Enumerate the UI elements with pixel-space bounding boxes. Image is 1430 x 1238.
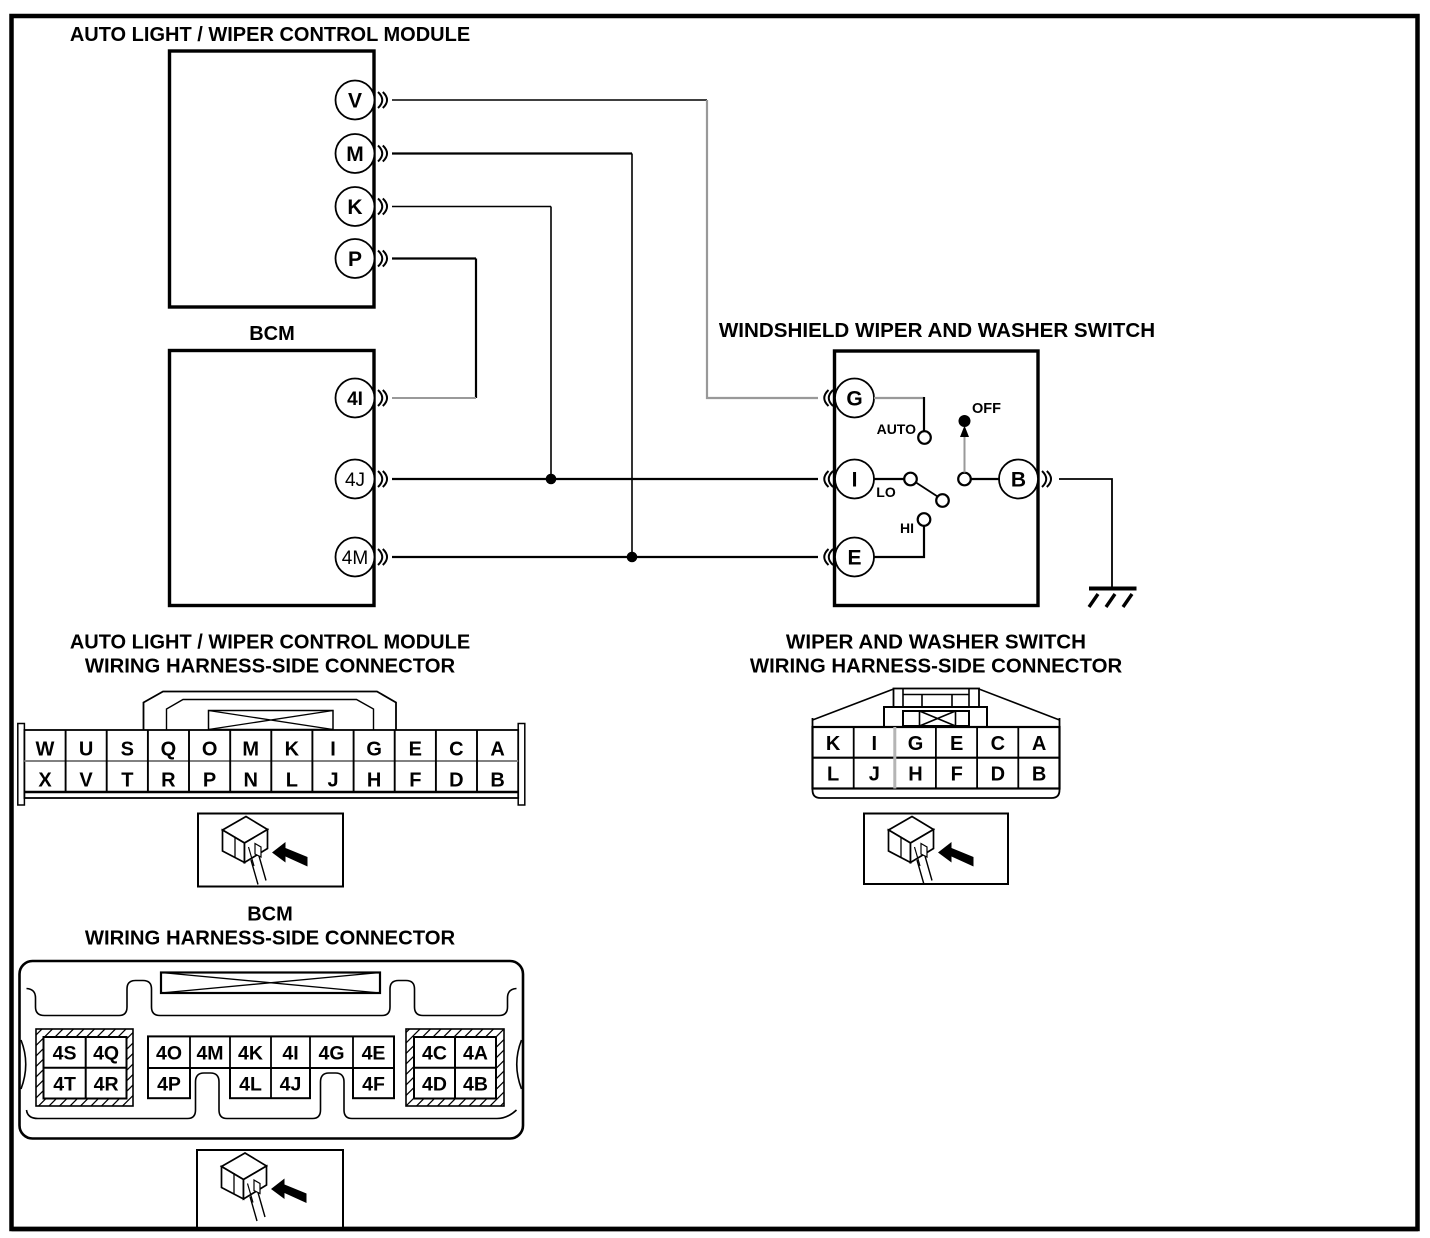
connector C3 left side notch bbox=[21, 1040, 26, 1089]
wire M horizontal bbox=[392, 152, 632, 154]
connector C1 cells bottom line bbox=[24, 791, 518, 794]
svg-text:B: B bbox=[490, 770, 504, 792]
connector view icon box (right) bbox=[864, 814, 1008, 885]
contact AUTO bbox=[918, 431, 931, 444]
svg-text:4Q: 4Q bbox=[93, 1043, 119, 1065]
svg-text:S: S bbox=[121, 739, 134, 761]
wire pole to B bbox=[971, 478, 1000, 480]
svg-text:AUTO LIGHT / WIPER CONTROL MOD: AUTO LIGHT / WIPER CONTROL MODULE bbox=[70, 24, 470, 46]
border frame bottom overlay bbox=[12, 1227, 1419, 1232]
wire G to AUTO contact (gray) bbox=[874, 397, 924, 399]
svg-text:LO: LO bbox=[876, 484, 896, 500]
contact LO bbox=[904, 473, 917, 486]
svg-text:4F: 4F bbox=[362, 1074, 385, 1096]
pole arrowhead bbox=[960, 426, 969, 438]
pole lever (gray) to OFF bbox=[964, 434, 966, 473]
svg-text:K: K bbox=[347, 196, 362, 219]
contact LO lower bbox=[936, 494, 949, 507]
connector C3 right hatched block bbox=[406, 1029, 504, 1106]
svg-text:A: A bbox=[490, 739, 504, 761]
wire K vertical to 4J net bbox=[550, 207, 552, 480]
svg-text:M: M bbox=[346, 143, 364, 166]
svg-text:V: V bbox=[348, 90, 362, 113]
wire 4I to P (gray) bbox=[392, 397, 476, 399]
connector C2 roof diagonals bbox=[813, 689, 1060, 720]
svg-text:4L: 4L bbox=[239, 1074, 262, 1096]
svg-text:BCM: BCM bbox=[249, 323, 295, 345]
svg-text:4B: 4B bbox=[463, 1074, 488, 1096]
pin G bbox=[824, 379, 874, 418]
connector view icon (right) bbox=[889, 817, 974, 885]
svg-text:V: V bbox=[79, 770, 93, 792]
wire V to G (gray highlighted) bbox=[707, 100, 818, 398]
pin 4J bbox=[336, 460, 388, 499]
connector view icon box (left) bbox=[198, 814, 343, 887]
connector C1 right tab bbox=[518, 724, 525, 806]
svg-text:BCM: BCM bbox=[247, 904, 293, 926]
connector C2 grid outer bbox=[813, 727, 1060, 789]
connector C1 body bbox=[24, 730, 518, 798]
connector view icon (bottom) bbox=[222, 1153, 307, 1221]
ground symbol bbox=[1089, 589, 1137, 608]
connector C1 latch X-box bbox=[209, 711, 334, 730]
connector C3 right side notch bbox=[517, 1040, 522, 1089]
pin E bbox=[824, 538, 874, 577]
svg-text:G: G bbox=[846, 388, 862, 411]
connector C2 body bbox=[813, 718, 1060, 798]
svg-text:A: A bbox=[1032, 733, 1046, 755]
svg-text:J: J bbox=[869, 764, 880, 786]
connector C1 cell verticals bbox=[66, 730, 477, 792]
svg-text:4K: 4K bbox=[238, 1043, 263, 1065]
connector C3 left hatched block bbox=[36, 1029, 133, 1106]
pin 4M bbox=[336, 538, 388, 577]
pin 4I bbox=[336, 379, 388, 418]
svg-text:I: I bbox=[872, 733, 878, 755]
svg-text:4O: 4O bbox=[156, 1043, 182, 1065]
connector C2 upper latch bbox=[894, 689, 980, 708]
svg-text:K: K bbox=[285, 739, 300, 761]
svg-text:4M: 4M bbox=[196, 1043, 223, 1065]
connector C2 cell verticals bbox=[854, 727, 1019, 789]
svg-text:B: B bbox=[1011, 469, 1026, 492]
svg-text:F: F bbox=[951, 764, 963, 786]
svg-text:W: W bbox=[36, 739, 55, 761]
pin P bbox=[336, 239, 388, 278]
wire I to LO contact bbox=[874, 478, 905, 480]
pin V bbox=[336, 81, 388, 120]
connector C3 middle top row cells bbox=[148, 1036, 394, 1068]
svg-text:4M: 4M bbox=[342, 548, 368, 569]
svg-text:WIRING HARNESS-SIDE CONNECTOR: WIRING HARNESS-SIDE CONNECTOR bbox=[750, 656, 1123, 678]
svg-text:O: O bbox=[202, 739, 218, 761]
connector C3 latch X-strip bbox=[161, 973, 380, 994]
pin I bbox=[824, 460, 874, 499]
junction 4J/K bbox=[546, 474, 557, 485]
connector C3 BCM housing bbox=[20, 961, 524, 1139]
svg-text:WIRING HARNESS-SIDE CONNECTOR: WIRING HARNESS-SIDE CONNECTOR bbox=[85, 928, 456, 950]
pin B bbox=[999, 460, 1051, 499]
svg-text:4J: 4J bbox=[345, 470, 365, 491]
wire P vertical bbox=[475, 259, 477, 399]
svg-text:H: H bbox=[367, 770, 381, 792]
pole contact circle bbox=[958, 473, 971, 486]
svg-text:4E: 4E bbox=[362, 1043, 386, 1065]
svg-text:N: N bbox=[243, 770, 257, 792]
BCM box bbox=[170, 351, 375, 606]
svg-text:AUTO: AUTO bbox=[877, 421, 917, 437]
connector C3 middle bottom row cells bbox=[148, 1068, 394, 1098]
svg-text:L: L bbox=[286, 770, 298, 792]
wire K horizontal bbox=[392, 206, 551, 208]
connector C1 left tab bbox=[18, 724, 25, 806]
svg-text:WINDSHIELD WIPER AND WASHER SW: WINDSHIELD WIPER AND WASHER SWITCH bbox=[719, 319, 1155, 342]
svg-text:4T: 4T bbox=[53, 1074, 76, 1096]
svg-text:WIRING HARNESS-SIDE CONNECTOR: WIRING HARNESS-SIDE CONNECTOR bbox=[85, 656, 456, 678]
svg-text:R: R bbox=[161, 770, 176, 792]
svg-text:OFF: OFF bbox=[972, 401, 1001, 417]
wire P horizontal bbox=[392, 257, 476, 259]
svg-text:P: P bbox=[348, 248, 362, 271]
svg-text:P: P bbox=[203, 770, 216, 792]
wire M vertical to 4M net bbox=[631, 154, 633, 558]
svg-text:4A: 4A bbox=[463, 1043, 488, 1065]
connector C3 inner bottom contour with slots bbox=[27, 1073, 517, 1119]
connector C2 highlighted I/G border (gray) bbox=[893, 727, 896, 789]
connector C2 lower latch bbox=[884, 707, 987, 727]
pin M bbox=[336, 134, 388, 173]
svg-text:C: C bbox=[449, 739, 463, 761]
svg-text:D: D bbox=[991, 764, 1005, 786]
svg-text:G: G bbox=[908, 733, 924, 755]
svg-text:E: E bbox=[847, 547, 861, 570]
svg-text:WIPER AND WASHER SWITCH: WIPER AND WASHER SWITCH bbox=[786, 631, 1086, 654]
svg-text:4P: 4P bbox=[157, 1074, 181, 1096]
contact HI bbox=[918, 513, 931, 526]
connector C2 row divider bbox=[813, 757, 1060, 759]
svg-text:4D: 4D bbox=[422, 1074, 447, 1096]
svg-text:Q: Q bbox=[161, 739, 177, 761]
connector view icon box (bottom) bbox=[197, 1150, 343, 1229]
svg-text:B: B bbox=[1032, 764, 1046, 786]
svg-text:G: G bbox=[366, 739, 382, 761]
svg-text:4J: 4J bbox=[280, 1074, 302, 1096]
module box U1 AUTO LIGHT/WIPER CONTROL MODULE bbox=[170, 51, 375, 307]
connector C1 row divider (gray) bbox=[24, 760, 518, 762]
svg-text:I: I bbox=[852, 469, 858, 492]
svg-text:E: E bbox=[409, 739, 422, 761]
svg-text:F: F bbox=[409, 770, 421, 792]
svg-text:J: J bbox=[327, 770, 338, 792]
connector C1 housing top inner outline bbox=[167, 700, 374, 731]
svg-text:T: T bbox=[121, 770, 133, 792]
wire 4J to I bbox=[392, 478, 818, 480]
switch blade LO bbox=[916, 483, 938, 497]
wire AUTO contact vertical bbox=[923, 397, 925, 431]
svg-text:AUTO LIGHT / WIPER CONTROL MOD: AUTO LIGHT / WIPER CONTROL MODULE bbox=[70, 632, 470, 654]
svg-text:M: M bbox=[242, 739, 259, 761]
junction 4M/M bbox=[627, 552, 638, 563]
connector view icon (left) bbox=[223, 817, 308, 885]
svg-text:C: C bbox=[991, 733, 1005, 755]
svg-text:X: X bbox=[38, 770, 52, 792]
svg-text:4G: 4G bbox=[318, 1043, 344, 1065]
wire B to ground bbox=[1059, 479, 1112, 587]
switch box S1 bbox=[835, 351, 1039, 606]
svg-text:H: H bbox=[908, 764, 922, 786]
connector C3 inner top contour with slots bbox=[27, 981, 517, 1016]
wire HI to E bbox=[874, 526, 924, 557]
svg-text:4I: 4I bbox=[282, 1043, 298, 1065]
svg-text:4S: 4S bbox=[53, 1043, 77, 1065]
svg-text:D: D bbox=[449, 770, 463, 792]
connector C2 latch X-box bbox=[903, 711, 969, 726]
connector C1 housing top outer outline bbox=[144, 692, 397, 731]
OFF position dot bbox=[959, 415, 971, 427]
wire 4M to E bbox=[392, 556, 818, 558]
svg-text:U: U bbox=[79, 739, 93, 761]
svg-text:4I: 4I bbox=[347, 389, 363, 410]
svg-text:HI: HI bbox=[900, 520, 914, 536]
svg-text:K: K bbox=[826, 733, 841, 755]
svg-text:4C: 4C bbox=[422, 1043, 447, 1065]
wire V horizontal bbox=[392, 99, 707, 101]
svg-text:4R: 4R bbox=[94, 1074, 119, 1096]
pin K bbox=[336, 187, 388, 226]
svg-text:L: L bbox=[827, 764, 839, 786]
svg-text:I: I bbox=[330, 739, 336, 761]
svg-text:E: E bbox=[950, 733, 963, 755]
